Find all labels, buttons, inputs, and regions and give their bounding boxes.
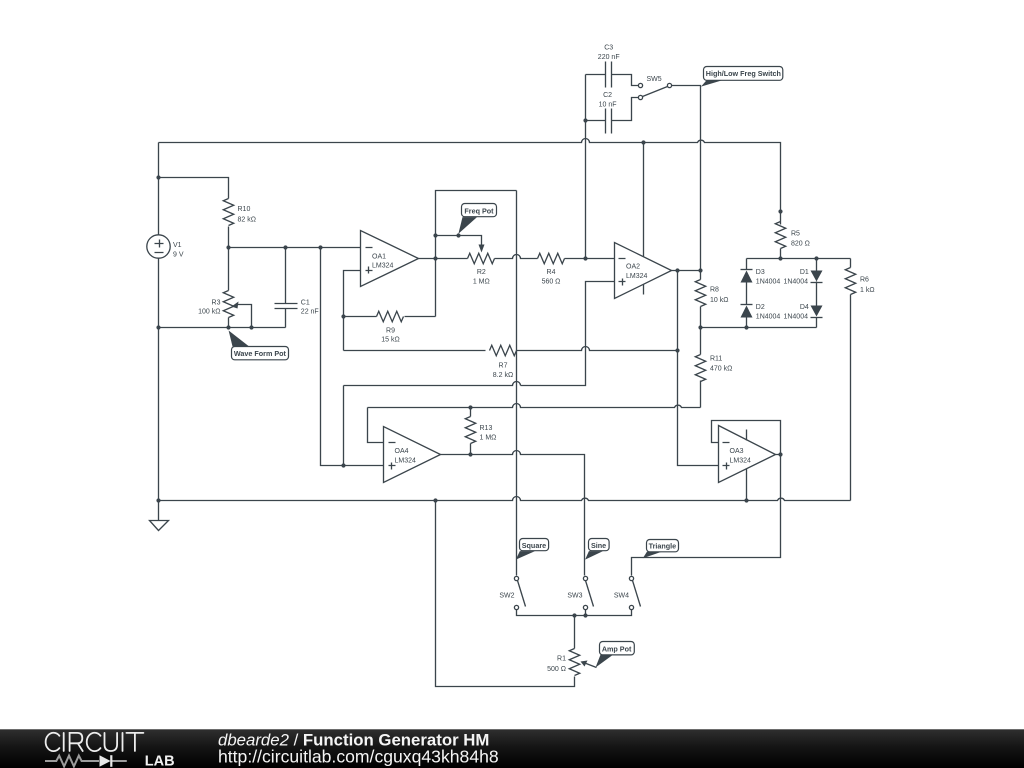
wire OA3 V- to ground rail — [746, 469, 748, 501]
wire R1 top lead — [574, 616, 576, 649]
wire OA1 + input — [344, 271, 361, 351]
node R9 left — [341, 314, 345, 318]
callout Triangle — [643, 540, 679, 559]
node OA3 feed tap — [675, 268, 679, 272]
op-amp OA4 — [384, 427, 441, 483]
node OA2 V+ tap — [641, 140, 645, 144]
svg-text:OA4: OA4 — [395, 448, 409, 455]
svg-text:D4: D4 — [800, 304, 809, 311]
svg-text:SW3: SW3 — [567, 592, 582, 599]
wire OA3 output down to Triangle feed — [632, 455, 781, 576]
wire C2 left lead — [586, 120, 606, 122]
svg-text:22 nF: 22 nF — [301, 309, 319, 316]
wire SW2 bottom to output bus — [517, 610, 632, 616]
wire R13 leads — [470, 408, 472, 455]
potentiometer R2 — [468, 245, 495, 264]
svg-text:C1: C1 — [301, 299, 310, 306]
svg-text:Amp Pot: Amp Pot — [602, 644, 632, 653]
node R3 bottom — [226, 325, 230, 329]
node R10/R3 junction — [226, 245, 230, 249]
svg-text:10 kΩ: 10 kΩ — [710, 297, 728, 304]
svg-text:V1: V1 — [173, 242, 182, 249]
svg-text:R2: R2 — [477, 269, 486, 276]
wire OA4 feedback run y=407.8 — [368, 404, 701, 408]
svg-text:D1: D1 — [800, 269, 809, 276]
diode D1 — [811, 271, 823, 283]
wire SW5 common to OA2 output node — [672, 86, 701, 271]
wire diode bridge bottom rail — [701, 327, 817, 329]
wire OA4 inverting input — [368, 408, 384, 443]
wire R2 loop right vertical down to SW2 (Square feed) — [516, 191, 518, 576]
node C2 tap — [583, 118, 587, 122]
wire C3 left lead — [586, 74, 606, 76]
svg-text:820 Ω: 820 Ω — [791, 241, 810, 248]
node SW3 bus tap — [583, 613, 587, 617]
svg-text:220 nF: 220 nF — [598, 54, 620, 61]
svg-text:1N4004: 1N4004 — [783, 279, 808, 286]
node OA1 output — [433, 256, 437, 260]
svg-text:High/Low Freg Switch: High/Low Freg Switch — [706, 69, 781, 78]
svg-text:Sine: Sine — [591, 541, 606, 550]
svg-text:8.2 kΩ: 8.2 kΩ — [493, 372, 513, 379]
svg-text:1 MΩ: 1 MΩ — [473, 279, 490, 286]
capacitor C3 — [606, 62, 612, 88]
op-amp OA2 — [615, 243, 672, 299]
op-amp OA3 — [719, 426, 776, 483]
wire C1 bottom lead — [285, 309, 287, 328]
switch SW2 — [514, 576, 525, 609]
wire OA1 output to R2 — [419, 258, 468, 260]
node D-col bottom — [744, 325, 748, 329]
svg-text:LM324: LM324 — [626, 273, 648, 280]
svg-text:Freq Pot: Freq Pot — [464, 207, 494, 216]
wire R9 left lead — [344, 316, 377, 318]
wire OA2 output — [672, 270, 701, 272]
node R5 top — [778, 209, 782, 213]
node R8 bottom — [698, 325, 702, 329]
wire R3 wiper tie-down — [237, 305, 252, 328]
wire reference node vertical to OA4 + input — [321, 248, 384, 466]
resistor R7 — [490, 345, 517, 355]
wire ground rail — [159, 497, 851, 501]
wire D1/D4 column leads — [816, 259, 818, 328]
diode D4 — [811, 306, 823, 318]
svg-text:LM324: LM324 — [395, 457, 417, 464]
svg-text:C2: C2 — [603, 92, 612, 99]
svg-text:LM324: LM324 — [730, 458, 752, 465]
callout Sine — [585, 539, 609, 560]
wire OA2 V- stub — [643, 285, 645, 295]
resistor R13 — [465, 417, 475, 444]
wire diode bridge top rail — [747, 258, 851, 260]
wire OA3 feedback loop — [712, 421, 781, 455]
node R1 bus tap — [572, 613, 576, 617]
wire top supply rail — [159, 139, 781, 225]
svg-text:9 V: 9 V — [173, 252, 184, 259]
svg-text:SW5: SW5 — [647, 76, 662, 83]
node R13 bottom — [468, 452, 472, 456]
switch SW5 — [638, 83, 671, 99]
node ground rail tap — [156, 498, 160, 502]
wire bottom node of R3/C1 — [159, 327, 286, 329]
svg-text:R10: R10 — [238, 206, 251, 213]
svg-text:R6: R6 — [860, 277, 869, 284]
wire R9 feedback bottom run — [344, 350, 486, 352]
voltage source V1 — [147, 235, 170, 258]
potentiometer R3 — [223, 248, 238, 328]
resistor R11 — [695, 328, 705, 382]
wire R4 right to OA2 inverting input — [565, 258, 615, 260]
svg-text:15 kΩ: 15 kΩ — [381, 337, 399, 344]
wire R9 right lead — [405, 316, 436, 318]
callout Wave Form Pot — [229, 331, 289, 360]
svg-text:R9: R9 — [386, 327, 395, 334]
node R3 wiper tie — [249, 325, 253, 329]
svg-text:OA3: OA3 — [730, 448, 744, 455]
node R5 bottom — [778, 256, 782, 260]
ground — [150, 521, 169, 531]
svg-text:1N4004: 1N4004 — [756, 313, 781, 320]
node freq pot callout anchor — [456, 233, 460, 237]
wire OA4 output run to SW3 drop — [441, 451, 585, 576]
node D1 top — [814, 256, 818, 260]
svg-text:1N4004: 1N4004 — [756, 279, 781, 286]
svg-text:OA1: OA1 — [372, 253, 386, 260]
node OA2 inverting — [583, 256, 587, 260]
svg-text:1 kΩ: 1 kΩ — [860, 287, 875, 294]
wire D3/D2 column leads — [746, 259, 748, 328]
node OA3 V- ground — [744, 498, 748, 502]
svg-text:10 nF: 10 nF — [599, 101, 617, 108]
wire timing caps vertical to OA2 inverting node — [585, 75, 587, 259]
wire R1 bottom return to ground rail — [436, 501, 575, 687]
switch SW3 — [583, 576, 593, 609]
resistor R10 — [223, 199, 233, 226]
wire C3 right lead to SW5 throw 1 — [612, 75, 639, 86]
svg-text:R3: R3 — [212, 299, 221, 306]
wire SW3 bottom stub — [585, 610, 587, 616]
switch SW4 — [629, 576, 640, 609]
diode D3 — [741, 270, 753, 283]
node R3 bottom rail tap — [156, 325, 160, 329]
svg-text:1 MΩ: 1 MΩ — [480, 434, 497, 441]
wire C1 top lead — [285, 248, 287, 304]
node OA2 output / SW5 — [698, 268, 702, 272]
node OA3 output — [778, 452, 782, 456]
callout Square — [516, 539, 549, 560]
svg-text:R4: R4 — [547, 269, 556, 276]
svg-text:SW4: SW4 — [614, 592, 629, 599]
resistor R9 — [377, 311, 404, 321]
wire R10 top feed — [159, 178, 229, 199]
wire left rail top segment — [158, 143, 160, 236]
node R7 sense join — [675, 348, 679, 352]
wire OA2 + input from low-pass tap — [521, 282, 615, 386]
resistor R5 — [775, 222, 785, 259]
wire OA1 output vertical (R2 loop left) — [436, 191, 517, 317]
node R10 feed tap — [156, 175, 160, 179]
svg-text:R1: R1 — [557, 655, 566, 662]
svg-text:R7: R7 — [499, 363, 508, 370]
logo diode symbol — [100, 755, 111, 767]
svg-text:C3: C3 — [604, 45, 613, 52]
svg-text:R8: R8 — [710, 287, 719, 294]
svg-text:500 Ω: 500 Ω — [547, 666, 566, 673]
node OA4 + join — [341, 463, 345, 467]
wire OA2 V+ supply drop — [643, 143, 645, 257]
callout Freq Pot — [458, 204, 496, 234]
svg-text:560 Ω: 560 Ω — [542, 279, 561, 286]
svg-text:Triangle: Triangle — [649, 542, 677, 551]
CircuitLab logo wordmark CIRCUIT — [46, 733, 144, 751]
CircuitLab logo resistor-diode squiggle — [45, 756, 127, 767]
svg-text:D3: D3 — [756, 269, 765, 276]
capacitor C1 — [275, 304, 298, 309]
resistor R6 — [845, 268, 855, 295]
wire OA2 output down to OA3 + input — [678, 271, 719, 466]
svg-text:Wave Form Pot: Wave Form Pot — [234, 349, 287, 358]
node C1 top — [283, 245, 287, 249]
wire C2 right lead to SW5 throw 2 — [612, 98, 639, 121]
svg-text:82 kΩ: 82 kΩ — [238, 217, 256, 224]
callout Amp Pot — [596, 642, 635, 668]
svg-text:SW2: SW2 — [499, 592, 514, 599]
potentiometer R1 — [569, 649, 596, 676]
resistor R8 — [695, 271, 705, 328]
resistor R4 — [538, 253, 565, 263]
capacitor C2 — [606, 109, 612, 134]
svg-text:R11: R11 — [710, 356, 722, 363]
node R1 return rail tap — [433, 498, 437, 502]
node reference branch — [318, 245, 322, 249]
wire R2 wiper run — [436, 236, 482, 245]
svg-text:D2: D2 — [756, 304, 765, 311]
wire left rail bottom segment — [158, 259, 160, 521]
wire OA3 V+ stub — [746, 430, 748, 441]
wire R7 right to OA2 output sense — [517, 347, 678, 351]
wire R2 right / hop / R4 left — [495, 255, 538, 259]
node R13 top — [468, 405, 472, 409]
svg-text:http://circuitlab.com/cguxq43k: http://circuitlab.com/cguxq43kh84h8 — [218, 747, 499, 767]
svg-text:LM324: LM324 — [372, 262, 394, 269]
wire R11 bottom to feedback run — [700, 381, 702, 408]
svg-text:Square: Square — [522, 541, 546, 550]
svg-text:1N4004: 1N4004 — [783, 313, 808, 320]
wire R6 bottom to ground rail — [850, 295, 852, 501]
node R2 wiper join — [433, 233, 437, 237]
op-amp OA1 — [361, 231, 419, 287]
svg-text:R5: R5 — [791, 230, 800, 237]
svg-text:100 kΩ: 100 kΩ — [198, 309, 220, 316]
svg-text:OA2: OA2 — [626, 264, 640, 271]
wire node B horizontal (R10 bottom to OA1 inverting input) — [229, 227, 361, 248]
diode D2 — [741, 305, 753, 318]
wire R6 top lead — [850, 259, 852, 268]
svg-text:LAB: LAB — [145, 754, 175, 768]
callout High/Low Freg Switch — [701, 67, 783, 87]
svg-text:R13: R13 — [480, 425, 493, 432]
svg-text:470 kΩ: 470 kΩ — [710, 366, 732, 373]
